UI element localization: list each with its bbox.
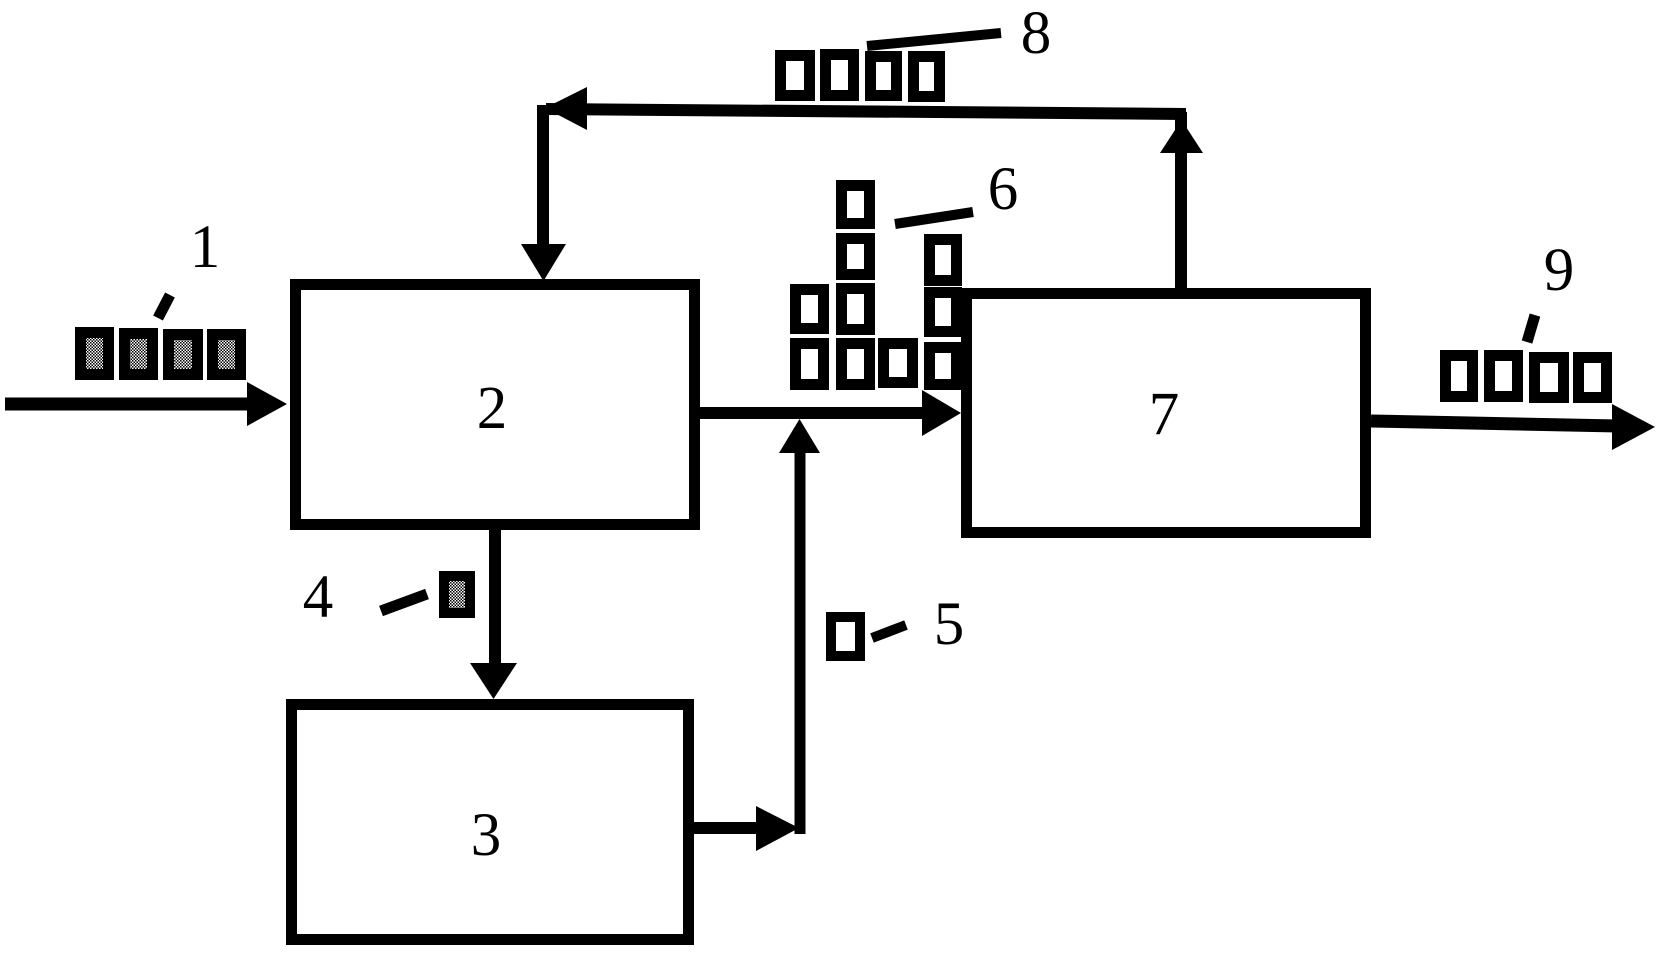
- histogram 6 column B square 2: [796, 344, 824, 385]
- svg-text:3: 3: [471, 802, 502, 869]
- histogram 6 column B square 1: [796, 290, 824, 329]
- square queue 9 item a: [1446, 356, 1473, 397]
- arrowhead: feedback pointing left: [545, 87, 587, 130]
- square 5: [831, 617, 860, 656]
- pointer line for label 6: [895, 212, 973, 224]
- svg-text:9: 9: [1544, 237, 1575, 304]
- wire: box 2 to box 7: [699, 390, 961, 436]
- square queue 1 item b (gray): [125, 334, 153, 375]
- histogram 6 column A square 2: [842, 239, 870, 275]
- square queue 8 item c: [871, 57, 897, 96]
- histogram 6 column D square 1: [930, 240, 957, 281]
- histogram 6 column A square 4: [842, 344, 870, 385]
- square queue 8 item a: [781, 56, 810, 96]
- square queue 8 item d: [914, 57, 940, 97]
- square queue 1 item c (gray): [169, 335, 198, 375]
- arrowhead: up toward feedback line: [1160, 120, 1203, 153]
- square queue 9 item c: [1535, 358, 1564, 398]
- pointer line for label 5: [872, 625, 906, 638]
- square queue 1 item a (gray): [81, 333, 109, 375]
- box 7: [967, 294, 1366, 533]
- wire: output from box 7: [1371, 404, 1655, 450]
- wire: box 3 output to junction: [694, 806, 799, 851]
- arrowhead: down into box 2: [521, 244, 566, 281]
- svg-text:2: 2: [477, 375, 508, 442]
- pointer slash for label 9: [1527, 315, 1535, 342]
- svg-text:4: 4: [303, 564, 334, 631]
- square queue 9 item b: [1490, 356, 1518, 397]
- pointer slash for label 1: [158, 295, 170, 318]
- histogram 6 column C square 1: [884, 344, 913, 383]
- square queue 9 item d: [1579, 358, 1607, 398]
- wire: feedback left vertical segment down to box 2: [537, 105, 549, 252]
- wire: box 2 down to box 3: [470, 529, 517, 699]
- wire: feedback right vertical segment up from box 7: [1175, 112, 1187, 292]
- square queue 8 item b: [826, 55, 854, 96]
- svg-text:5: 5: [934, 591, 965, 658]
- pointer line for label 8: [867, 33, 1001, 46]
- histogram 6 column D square 3: [930, 348, 957, 385]
- svg-text:6: 6: [988, 156, 1019, 223]
- square 4 (gray): [444, 576, 470, 613]
- box 3: [292, 705, 689, 940]
- svg-text:1: 1: [190, 214, 221, 281]
- histogram 6 column A square 1: [842, 186, 870, 224]
- wire: junction up to box2-box7 line: [779, 419, 820, 834]
- box 2: [296, 285, 695, 525]
- wire: feedback horizontal line (top): [546, 109, 1186, 114]
- histogram 6 column D square 2: [930, 293, 957, 332]
- histogram 6 column A square 3: [842, 289, 870, 330]
- svg-text:8: 8: [1021, 0, 1052, 67]
- wire: input line into box 2: [5, 382, 287, 426]
- pointer line for label 4: [381, 594, 427, 611]
- svg-text:7: 7: [1149, 381, 1180, 448]
- square queue 1 item d (gray): [213, 335, 241, 375]
